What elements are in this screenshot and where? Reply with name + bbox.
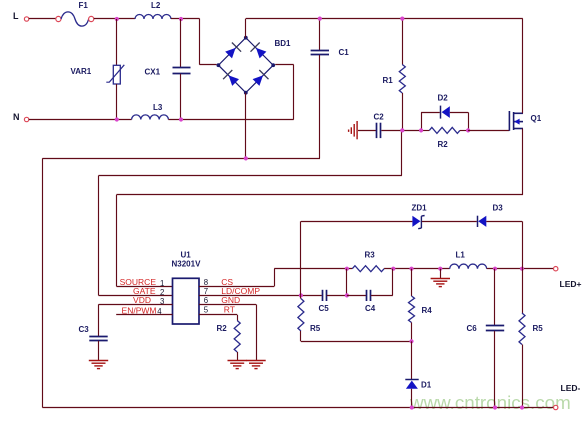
wire bbox=[421, 112, 440, 114]
svg-text:R1: R1 bbox=[383, 76, 394, 85]
wire bbox=[402, 93, 404, 130]
svg-text:C6: C6 bbox=[467, 324, 478, 333]
wire left rail bbox=[42, 158, 44, 407]
ground near L1 bbox=[431, 279, 450, 287]
wire bbox=[199, 19, 201, 65]
wire bbox=[358, 130, 376, 132]
node C5/C4 bbox=[345, 293, 349, 297]
wire CS rail b bbox=[384, 268, 450, 270]
wire bbox=[274, 269, 276, 287]
wire VDD row bbox=[99, 304, 173, 306]
wire bbox=[421, 130, 429, 132]
resistor R4 bbox=[409, 296, 415, 323]
svg-text:7: 7 bbox=[204, 287, 208, 296]
svg-text:CX1: CX1 bbox=[145, 68, 161, 77]
node R4 top bbox=[409, 267, 413, 271]
svg-text:LED+: LED+ bbox=[560, 279, 582, 289]
resistor R5 (comp) bbox=[298, 299, 304, 332]
inductor L3 bbox=[132, 115, 169, 120]
svg-text:L3: L3 bbox=[153, 103, 163, 112]
capacitor CX1 bbox=[173, 68, 191, 74]
svg-text:R2: R2 bbox=[217, 324, 228, 333]
wire bbox=[494, 269, 496, 325]
wire Q1 drain bbox=[522, 19, 524, 114]
wire RT row bbox=[199, 314, 237, 316]
wire bbox=[411, 323, 413, 342]
wire gate lead bbox=[468, 130, 509, 132]
wire bbox=[440, 269, 442, 279]
wire bridge+ up bbox=[245, 19, 247, 38]
wire bbox=[450, 112, 468, 114]
wire N rail bbox=[29, 119, 132, 121]
terminal L bbox=[24, 17, 28, 21]
diode D2 bbox=[440, 106, 442, 119]
svg-text:N: N bbox=[13, 112, 20, 122]
svg-text:L: L bbox=[13, 11, 19, 21]
transistor Q1 (N-MOSFET) bbox=[509, 111, 523, 131]
capacitor C5 bbox=[323, 290, 327, 301]
wire CS row bbox=[199, 286, 274, 288]
node C1 top bbox=[318, 17, 322, 21]
svg-text:D1: D1 bbox=[421, 381, 432, 390]
bridge diode top-left bbox=[225, 48, 235, 59]
wire gate rail y175 bbox=[99, 175, 402, 177]
wire D2 box left bbox=[421, 112, 423, 130]
wire bbox=[381, 130, 420, 132]
wire bbox=[237, 315, 239, 321]
wire GND row bbox=[199, 304, 256, 306]
wire clamp right bbox=[522, 221, 524, 268]
svg-text:www.cntronics.com: www.cntronics.com bbox=[409, 392, 571, 413]
wire bbox=[180, 74, 182, 120]
svg-text:F1: F1 bbox=[79, 1, 89, 10]
svg-text:Q1: Q1 bbox=[531, 114, 542, 123]
resistor R1 bbox=[399, 65, 405, 94]
svg-text:R2: R2 bbox=[438, 140, 449, 149]
resistor R3 bbox=[352, 266, 384, 272]
wire LD/COMP row bbox=[199, 295, 301, 297]
wire bbox=[327, 295, 347, 297]
wire EN/PWM row bbox=[116, 314, 172, 316]
svg-text:L2: L2 bbox=[151, 1, 161, 10]
svg-text:ZD1: ZD1 bbox=[412, 204, 428, 213]
wire bbox=[98, 176, 100, 296]
node D1 bottom bbox=[410, 405, 414, 409]
wire bbox=[98, 304, 100, 336]
node R4/R5/D1 bbox=[409, 339, 413, 343]
wire bbox=[256, 304, 258, 360]
bridge diode bottom-left bbox=[229, 75, 239, 86]
wire bbox=[460, 130, 468, 132]
svg-text:R5: R5 bbox=[310, 324, 321, 333]
svg-text:C3: C3 bbox=[79, 325, 90, 334]
node R2 left bbox=[419, 128, 423, 132]
wire bbox=[522, 345, 524, 408]
wire Q1 source bbox=[522, 129, 524, 195]
capacitor C6 bbox=[486, 326, 504, 331]
wire source rail y195 bbox=[117, 194, 524, 196]
wire bbox=[301, 221, 412, 223]
svg-text:1: 1 bbox=[160, 279, 164, 288]
node LD/COMP bbox=[299, 293, 303, 297]
svg-text:D2: D2 bbox=[438, 94, 449, 103]
svg-text:2: 2 bbox=[160, 288, 164, 297]
op-amp U1 N3201V box bbox=[173, 278, 200, 324]
svg-text:D3: D3 bbox=[493, 204, 504, 213]
wire bbox=[301, 341, 412, 343]
bridge rectifier BD1 bbox=[218, 38, 273, 93]
svg-text:LED-: LED- bbox=[561, 383, 581, 393]
resistor R2 (RT) bbox=[234, 321, 240, 353]
capacitor C4 bbox=[367, 290, 371, 301]
capacitor C3 bbox=[89, 337, 107, 341]
wire bottom rail bbox=[42, 407, 553, 409]
node R2 right bbox=[466, 128, 470, 132]
wire bbox=[402, 19, 404, 65]
wire bbox=[301, 295, 322, 297]
wire bbox=[401, 130, 403, 175]
wire bbox=[411, 389, 413, 408]
wire bbox=[116, 84, 118, 120]
wire bbox=[116, 195, 118, 287]
svg-text:R5: R5 bbox=[533, 324, 544, 333]
wire bbox=[422, 221, 477, 223]
wire clamp left bbox=[300, 221, 302, 295]
svg-text:RT: RT bbox=[224, 304, 235, 314]
ground at R2 bbox=[228, 361, 247, 369]
wire bbox=[522, 269, 524, 313]
wire GATE row bbox=[99, 295, 173, 297]
wire bridge- down bbox=[245, 93, 247, 159]
svg-text:5: 5 bbox=[204, 305, 209, 314]
wire to bridge right bbox=[275, 64, 294, 66]
inductor L1 bbox=[450, 264, 487, 269]
wire SOURCE row bbox=[117, 286, 173, 288]
earth symbol at C2 bbox=[349, 121, 358, 139]
node R3 left bbox=[345, 267, 349, 271]
wire bus y158 bbox=[42, 158, 320, 160]
svg-text:VDD: VDD bbox=[133, 295, 151, 305]
zener diode ZD1 bbox=[412, 216, 420, 227]
ground at GND pin bbox=[246, 361, 265, 369]
svg-text:L1: L1 bbox=[456, 251, 466, 260]
svg-text:R3: R3 bbox=[365, 251, 376, 260]
svg-text:C1: C1 bbox=[339, 48, 350, 57]
node C6 bottom bbox=[493, 405, 497, 409]
node R1 top bbox=[400, 17, 404, 21]
wire bbox=[300, 331, 302, 341]
resistor R5 (out) bbox=[519, 313, 525, 345]
capacitor C1 bbox=[311, 51, 329, 55]
ground at C3 bbox=[89, 361, 108, 369]
terminal LED+ bbox=[554, 267, 558, 271]
wire bbox=[371, 295, 393, 297]
wire bbox=[347, 295, 366, 297]
wire bbox=[411, 269, 413, 296]
wire bbox=[494, 331, 496, 408]
svg-text:N3201V: N3201V bbox=[172, 260, 202, 269]
wire bbox=[168, 119, 293, 121]
wire bbox=[319, 19, 321, 51]
terminal N bbox=[24, 117, 28, 121]
node VAR1 bottom bbox=[115, 117, 119, 121]
node C6 top bbox=[493, 267, 497, 271]
wire bbox=[411, 341, 413, 379]
svg-text:6: 6 bbox=[204, 296, 208, 305]
varistor VAR1 bbox=[113, 65, 120, 84]
node R3 right bbox=[391, 267, 395, 271]
node bridge-/bus bbox=[244, 156, 248, 160]
svg-text:EN/PWM: EN/PWM bbox=[122, 305, 157, 315]
wire bbox=[392, 269, 394, 296]
wire bbox=[29, 18, 56, 20]
fuse F1 bbox=[56, 16, 61, 21]
wire bbox=[94, 18, 135, 20]
svg-text:C5: C5 bbox=[319, 304, 330, 313]
wire bbox=[171, 18, 200, 20]
wire +HV top rail bbox=[246, 18, 523, 20]
svg-text:C2: C2 bbox=[374, 113, 385, 122]
wire bbox=[180, 19, 182, 67]
resistor R2 (gate) bbox=[429, 127, 460, 133]
svg-text:C4: C4 bbox=[365, 304, 376, 313]
node CX1 bottom bbox=[179, 117, 183, 121]
wire bbox=[293, 65, 295, 120]
diode D1 bbox=[405, 379, 418, 381]
inductor L2 bbox=[135, 15, 171, 20]
wire CS rail c bbox=[487, 268, 554, 270]
svg-text:VAR1: VAR1 bbox=[71, 67, 92, 76]
svg-text:BD1: BD1 bbox=[275, 39, 292, 48]
node R1/C2/R2 bbox=[400, 128, 404, 132]
wire bbox=[486, 221, 522, 223]
wire bbox=[346, 269, 348, 296]
wire bbox=[319, 55, 321, 158]
wire to bridge left bbox=[200, 64, 217, 66]
node L2/CX1 bbox=[179, 17, 183, 21]
terminal LED- bbox=[554, 405, 558, 409]
wire CS rail a bbox=[274, 268, 352, 270]
bridge diode bottom-right bbox=[253, 75, 263, 86]
svg-text:8: 8 bbox=[204, 278, 208, 287]
wire D2 box right bbox=[468, 112, 470, 130]
node ground stub bbox=[438, 267, 442, 271]
wire bbox=[98, 341, 100, 361]
diode D3 bbox=[477, 216, 479, 227]
node F1/VAR1/L2 bbox=[115, 17, 119, 21]
bridge diode top-right bbox=[256, 48, 266, 59]
capacitor C2 bbox=[377, 123, 381, 138]
wire bbox=[237, 352, 239, 360]
node R5/clamp bbox=[520, 267, 524, 271]
svg-text:U1: U1 bbox=[181, 251, 192, 260]
node R5 bottom bbox=[520, 405, 524, 409]
svg-text:R4: R4 bbox=[422, 306, 433, 315]
wire bbox=[300, 295, 302, 298]
wire bbox=[116, 19, 118, 65]
